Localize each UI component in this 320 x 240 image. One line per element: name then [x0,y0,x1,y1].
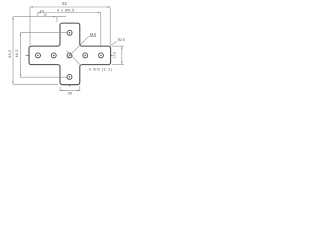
svg-text:R2,5: R2,5 [118,38,125,42]
svg-text:16: 16 [43,12,47,16]
svg-text:66,5: 66,5 [8,49,12,57]
svg-text:20: 20 [68,91,73,96]
svg-text:3 mm (1:1): 3 mm (1:1) [89,67,113,71]
svg-text:52: 52 [62,1,67,6]
svg-text:4 x Ø5,5: 4 x Ø5,5 [57,9,75,13]
svg-text:44,3: 44,3 [15,50,19,58]
svg-text:17,5: 17,5 [113,52,117,59]
svg-text:M3: M3 [90,32,97,37]
